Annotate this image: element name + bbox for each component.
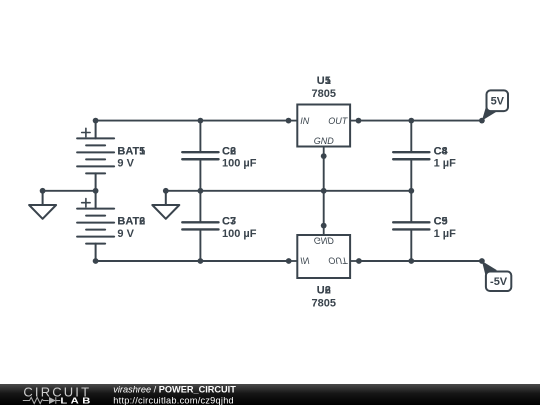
wire C3/C7 bottom stub [199, 229, 201, 261]
ground (right) [152, 191, 179, 219]
name label C3/C7 and value label 100 uF [222, 216, 257, 240]
name label BAT2/BAT6 and value label 9 V [117, 216, 145, 240]
voltage regulator U1/U5 7805 body [289, 105, 359, 157]
svg-text:IN: IN [300, 116, 310, 126]
junction 5V flag attach point [479, 118, 485, 124]
name label C5/C9 and value label 1 uF [434, 216, 457, 240]
wire bottom rail left [96, 260, 289, 262]
svg-text:C5: C5 [434, 216, 448, 228]
footer text [113, 385, 236, 405]
battery BAT2/BAT6 9V [77, 191, 114, 261]
junction U2/U6 IN terminal [286, 258, 292, 264]
svg-text:9 V: 9 V [117, 158, 134, 170]
svg-text:BAT2: BAT2 [117, 216, 145, 228]
svg-text:7805: 7805 [312, 298, 336, 310]
pin labels IN / OUT / GND of U2/U6 (flipped) [300, 236, 349, 266]
svg-text:C2: C2 [222, 145, 236, 157]
svg-text:100 µF: 100 µF [222, 228, 257, 240]
junction U2/U6 OUT terminal [356, 258, 362, 264]
wire GND vertical U1/U5 to U2/U6 [323, 156, 325, 226]
svg-text:LAB: LAB [60, 397, 93, 405]
junction U2/U6 GND terminal [321, 223, 327, 229]
battery BAT1/BAT5 9V [77, 121, 114, 191]
junction right ground terminal [163, 188, 169, 194]
capacitor C2/C6 100uF [182, 152, 218, 159]
voltage regulator U2/U6 7805 body (flipped vertically) [289, 226, 359, 278]
wire C2/C6 bottom stub [199, 159, 201, 191]
pin labels IN / OUT / GND of U1/U5 [300, 116, 349, 146]
node 5V flag [482, 90, 508, 120]
name label C4/C8 and value label 1 uF [434, 145, 457, 169]
wire mid-left (battery junction to ground) [43, 190, 96, 192]
svg-text:-5V: -5V [490, 276, 508, 288]
svg-text:OUT: OUT [328, 116, 349, 126]
svg-text:7805: 7805 [312, 88, 336, 100]
svg-text:IN: IN [300, 255, 310, 265]
junction U1/U5 OUT terminal [356, 118, 362, 124]
junction C3/C7 bottom on -9V rail [198, 258, 204, 264]
junction C2/C6 top on +9V rail [198, 118, 204, 124]
junction battery midpoint node [93, 188, 99, 194]
svg-text:C4: C4 [434, 145, 449, 157]
svg-text:5V: 5V [491, 96, 505, 108]
wire C2/C6 top stub [199, 121, 201, 153]
svg-text:1 µF: 1 µF [434, 158, 457, 170]
junction C4/C8 top on 5V rail [408, 118, 414, 124]
name label BAT1/BAT5 and value label 9 V [117, 145, 145, 169]
junction GND wire crossing ground rail [321, 188, 327, 194]
wire C3/C7 top stub [199, 191, 201, 223]
wire C4/C8 bottom stub [410, 159, 412, 191]
wire bottom rail right [359, 260, 482, 262]
capacitor C4/C8 1uF [393, 152, 429, 159]
wire top rail left [96, 120, 289, 122]
junction U1/U5 GND terminal [321, 153, 327, 159]
svg-text:OUT: OUT [328, 255, 349, 265]
svg-text:GND: GND [314, 136, 335, 146]
name label C2/C6 and value label 100 uF [222, 145, 257, 169]
wire C5/C9 bottom stub [410, 229, 412, 261]
svg-text:100 µF: 100 µF [222, 158, 257, 170]
junction C2/C6 bottom / C3/C7 top on ground rail [198, 188, 204, 194]
svg-text:http://circuitlab.com/cz9qjhd: http://circuitlab.com/cz9qjhd [113, 395, 234, 405]
svg-text:BAT1: BAT1 [117, 145, 145, 157]
name label U2/U6 and value label 7805 [312, 285, 336, 310]
junction left ground terminal [40, 188, 46, 194]
junction U1/U5 IN terminal [286, 118, 292, 124]
capacitor C3/C7 100uF [182, 222, 218, 229]
junction BAT1/BAT5 + terminal on +9V rail [93, 118, 99, 124]
wire top rail right [359, 120, 482, 122]
svg-text:U1: U1 [317, 75, 331, 87]
svg-text:9 V: 9 V [117, 228, 134, 240]
junction -5V flag attach point [479, 258, 485, 264]
name label U1/U5 and value label 7805 [312, 75, 336, 100]
wire C4/C8 top stub [410, 121, 412, 153]
ground (left) [29, 191, 56, 219]
svg-text:1 µF: 1 µF [434, 228, 457, 240]
capacitor C5/C9 1uF [393, 222, 429, 229]
wire mid-right rail [166, 190, 411, 192]
svg-text:virashree / POWER_CIRCUIT: virashree / POWER_CIRCUIT [113, 385, 236, 395]
junction C4/C8 bottom / C5/C9 top on ground rail [408, 188, 414, 194]
svg-text:C3: C3 [222, 216, 236, 228]
junction C5/C9 bottom on -5V rail [408, 258, 414, 264]
wire C5/C9 top stub [410, 191, 412, 223]
svg-text:U2: U2 [317, 285, 331, 297]
svg-text:GND: GND [314, 236, 335, 246]
CircuitLab logo [23, 385, 94, 405]
node -5V flag [482, 261, 511, 291]
junction BAT2/BAT6 - terminal on -9V rail [93, 258, 99, 264]
